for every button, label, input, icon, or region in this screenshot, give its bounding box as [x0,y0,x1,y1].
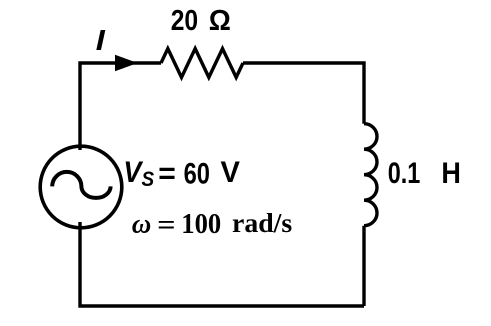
svg-text:S: S [141,168,154,191]
svg-text:20: 20 [171,4,198,36]
svg-text:H: H [441,157,460,191]
wire: left-top L segment (source top to resistor) [80,63,161,150]
svg-text:100: 100 [181,208,221,239]
ac source: sine wave [52,172,110,198]
svg-text:0.1: 0.1 [388,156,421,189]
svg-text:I: I [96,24,107,57]
inductor 0.1 H coil (4 bumps) [364,124,377,226]
current direction arrowhead [115,55,138,72]
svg-text:=: = [157,210,175,240]
wire: right lower segment (inductor bottom down) [362,226,365,306]
svg-text:Ω: Ω [209,4,231,37]
svg-text:ω: ω [132,209,152,239]
svg-text:=: = [158,157,176,190]
ac source Vs: circle [40,146,122,228]
resistor 20-ohm zigzag [161,49,243,78]
svg-text:V: V [221,156,241,189]
wire: top-right L segment (resistor to inductor top) [243,63,364,124]
wire: bottom + left lower L segment (to source bottom) [80,222,364,306]
svg-text:60: 60 [184,157,210,190]
svg-text:rad/s: rad/s [232,208,292,238]
